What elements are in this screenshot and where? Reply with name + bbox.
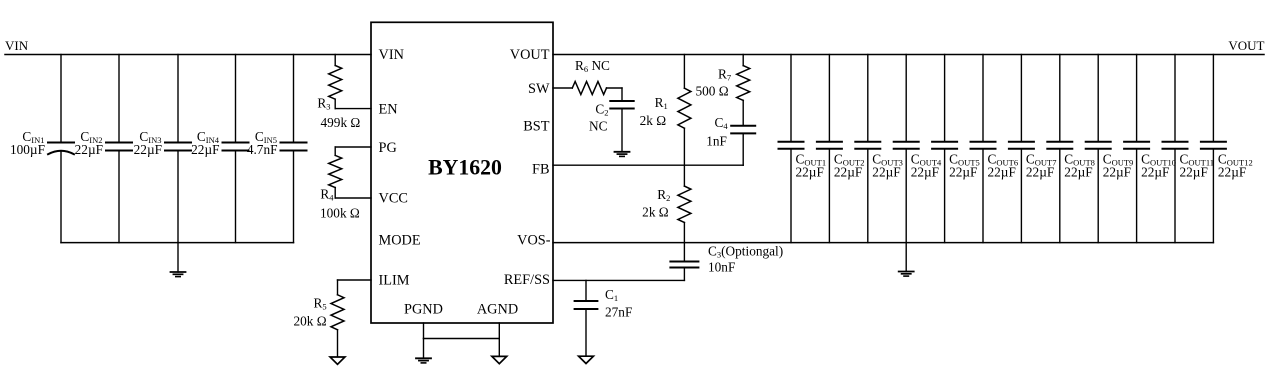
svg-text:VIN: VIN (5, 38, 29, 53)
svg-text:MODE: MODE (379, 232, 421, 248)
svg-text:SW: SW (528, 81, 550, 97)
svg-text:R6 NC: R6 NC (575, 58, 610, 74)
svg-text:BST: BST (523, 119, 549, 135)
svg-text:22µF: 22µF (1141, 164, 1169, 179)
svg-text:499k Ω: 499k Ω (321, 115, 361, 130)
svg-text:4.7nF: 4.7nF (247, 142, 278, 157)
svg-text:22µF: 22µF (834, 164, 862, 179)
svg-text:22µF: 22µF (1064, 164, 1092, 179)
svg-text:VIN: VIN (379, 47, 404, 63)
svg-text:100k Ω: 100k Ω (320, 206, 360, 221)
svg-text:2k Ω: 2k Ω (640, 113, 667, 128)
svg-text:ILIM: ILIM (379, 273, 410, 289)
svg-text:22µF: 22µF (75, 142, 103, 157)
svg-text:22µF: 22µF (134, 142, 162, 157)
svg-text:27nF: 27nF (605, 305, 632, 320)
svg-text:BY1620: BY1620 (428, 155, 502, 179)
svg-text:22µF: 22µF (191, 142, 219, 157)
svg-text:PGND: PGND (404, 302, 443, 318)
svg-text:20k Ω: 20k Ω (293, 314, 326, 329)
svg-text:VCC: VCC (379, 191, 408, 207)
svg-text:22µF: 22µF (1218, 164, 1246, 179)
svg-text:FB: FB (532, 162, 550, 178)
svg-text:22µF: 22µF (911, 164, 939, 179)
svg-text:22µF: 22µF (988, 164, 1016, 179)
svg-text:2k Ω: 2k Ω (642, 205, 669, 220)
svg-text:VOUT: VOUT (1228, 38, 1264, 53)
svg-text:AGND: AGND (477, 302, 518, 318)
svg-text:100µF: 100µF (10, 142, 45, 157)
svg-text:22µF: 22µF (796, 164, 824, 179)
svg-text:22µF: 22µF (1180, 164, 1208, 179)
svg-text:EN: EN (379, 101, 398, 117)
svg-text:VOUT: VOUT (510, 47, 550, 63)
svg-text:1nF: 1nF (706, 134, 727, 149)
svg-text:22µF: 22µF (949, 164, 977, 179)
svg-text:10nF: 10nF (708, 260, 735, 275)
svg-text:REF/SS: REF/SS (504, 272, 550, 288)
svg-text:NC: NC (589, 118, 608, 133)
svg-text:VOS-: VOS- (517, 233, 551, 249)
svg-text:500 Ω: 500 Ω (695, 84, 728, 99)
svg-text:22µF: 22µF (1103, 164, 1131, 179)
svg-text:PG: PG (379, 140, 397, 156)
svg-text:22µF: 22µF (1026, 164, 1054, 179)
svg-text:22µF: 22µF (872, 164, 900, 179)
